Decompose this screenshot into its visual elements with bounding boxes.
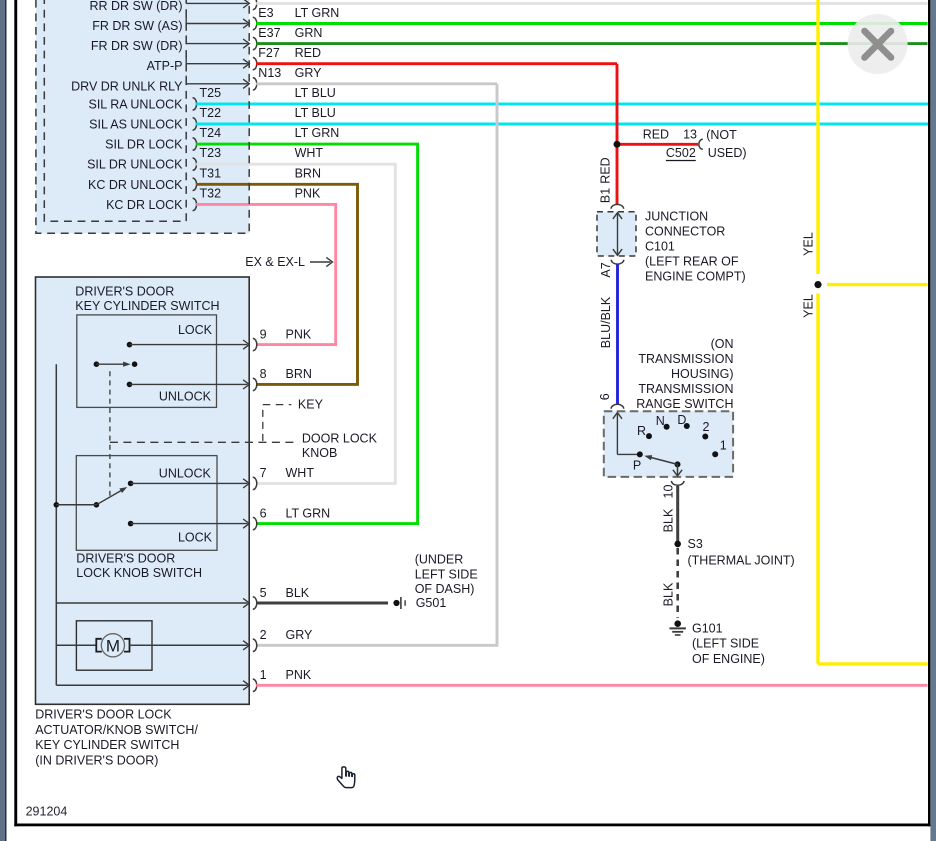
svg-text:KC DR UNLOCK: KC DR UNLOCK: [88, 178, 183, 192]
svg-text:10: 10: [661, 485, 675, 499]
svg-text:T25: T25: [200, 86, 222, 100]
svg-text:(THERMAL JOINT): (THERMAL JOINT): [688, 553, 795, 567]
svg-text:7: 7: [260, 466, 267, 480]
svg-text:(LEFT SIDE: (LEFT SIDE: [692, 637, 759, 651]
svg-text:6: 6: [260, 506, 267, 520]
svg-text:RED: RED: [599, 157, 613, 183]
svg-text:SIL DR LOCK: SIL DR LOCK: [105, 138, 183, 152]
svg-text:C502: C502: [666, 146, 696, 160]
svg-text:2: 2: [703, 420, 710, 434]
svg-text:LOCK: LOCK: [178, 323, 213, 337]
svg-text:BLU/BLK: BLU/BLK: [599, 296, 613, 348]
svg-text:S3: S3: [688, 537, 703, 551]
svg-text:DRV DR UNLK RLY: DRV DR UNLK RLY: [71, 79, 183, 93]
svg-text:B1: B1: [599, 188, 613, 203]
svg-text:GRY: GRY: [286, 628, 314, 642]
svg-text:ENGINE COMPT): ENGINE COMPT): [645, 270, 746, 284]
svg-text:BRN: BRN: [286, 367, 312, 381]
svg-text:E3: E3: [258, 6, 273, 20]
svg-text:DRIVER'S DOOR: DRIVER'S DOOR: [75, 285, 174, 299]
svg-text:D: D: [677, 413, 686, 427]
svg-text:YEL: YEL: [802, 294, 816, 318]
svg-text:FR DR SW (AS): FR DR SW (AS): [92, 19, 182, 33]
svg-text:EX & EX-L: EX & EX-L: [245, 255, 305, 269]
svg-text:G101: G101: [692, 622, 723, 636]
svg-text:ACTUATOR/KNOB SWITCH/: ACTUATOR/KNOB SWITCH/: [35, 723, 198, 737]
svg-text:BLK: BLK: [661, 508, 675, 532]
svg-text:F27: F27: [258, 46, 280, 60]
svg-text:TRANSMISSION: TRANSMISSION: [638, 382, 733, 396]
svg-text:WHT: WHT: [295, 146, 324, 160]
svg-text:T22: T22: [200, 106, 222, 120]
svg-text:GRN: GRN: [295, 26, 323, 40]
svg-text:USED): USED): [708, 146, 747, 160]
svg-text:TRANSMISSION: TRANSMISSION: [638, 352, 733, 366]
svg-text:FR DR SW (DR): FR DR SW (DR): [91, 39, 183, 53]
svg-text:N: N: [656, 414, 665, 428]
svg-text:LOCK KNOB SWITCH: LOCK KNOB SWITCH: [76, 566, 202, 580]
svg-text:PNK: PNK: [286, 327, 312, 341]
svg-text:1: 1: [720, 438, 727, 452]
svg-text:LT BLU: LT BLU: [295, 106, 336, 120]
svg-text:A7: A7: [599, 262, 613, 277]
svg-text:LT GRN: LT GRN: [286, 506, 331, 520]
svg-text:GRY: GRY: [295, 66, 323, 80]
svg-text:PNK: PNK: [295, 186, 321, 200]
svg-text:BLK: BLK: [286, 586, 310, 600]
svg-text:BLK: BLK: [661, 582, 675, 606]
svg-text:LT BLU: LT BLU: [295, 86, 336, 100]
svg-text:HOUSING): HOUSING): [671, 367, 734, 381]
svg-text:KEY: KEY: [298, 398, 324, 412]
svg-text:BRN: BRN: [295, 166, 321, 180]
svg-text:N13: N13: [258, 66, 281, 80]
svg-text:OF ENGINE): OF ENGINE): [692, 652, 765, 666]
svg-text:DRIVER'S DOOR: DRIVER'S DOOR: [76, 552, 175, 566]
svg-text:M: M: [106, 636, 120, 655]
svg-text:DOOR LOCK: DOOR LOCK: [302, 432, 378, 446]
svg-text:LOCK: LOCK: [178, 530, 213, 544]
svg-text:KNOB: KNOB: [302, 446, 337, 460]
svg-text:DRIVER'S DOOR LOCK: DRIVER'S DOOR LOCK: [35, 708, 172, 722]
svg-text:T23: T23: [200, 146, 222, 160]
svg-text:(LEFT REAR OF: (LEFT REAR OF: [645, 255, 739, 269]
svg-text:SIL RA UNLOCK: SIL RA UNLOCK: [88, 97, 183, 111]
svg-text:UNLOCK: UNLOCK: [159, 466, 212, 480]
svg-text:291204: 291204: [26, 805, 68, 819]
svg-text:ATP-P: ATP-P: [147, 59, 183, 73]
svg-text:OF DASH): OF DASH): [415, 582, 475, 596]
svg-text:KEY CYLINDER SWITCH: KEY CYLINDER SWITCH: [35, 738, 179, 752]
svg-text:G501: G501: [416, 596, 447, 610]
svg-text:LT GRN: LT GRN: [295, 126, 340, 140]
svg-text:(NOT: (NOT: [706, 128, 737, 142]
svg-text:8: 8: [260, 367, 267, 381]
svg-text:KEY CYLINDER SWITCH: KEY CYLINDER SWITCH: [75, 299, 219, 313]
svg-text:JUNCTION: JUNCTION: [645, 209, 708, 223]
svg-text:13: 13: [683, 128, 697, 142]
svg-text:RR DR SW (DR): RR DR SW (DR): [89, 0, 182, 13]
svg-text:RANGE SWITCH: RANGE SWITCH: [636, 397, 733, 411]
svg-text:WHT: WHT: [286, 466, 315, 480]
svg-text:C101: C101: [645, 240, 675, 254]
svg-text:SIL DR UNLOCK: SIL DR UNLOCK: [87, 158, 183, 172]
svg-text:LEFT SIDE: LEFT SIDE: [415, 568, 478, 582]
svg-text:T31: T31: [200, 166, 222, 180]
svg-text:LT GRN: LT GRN: [295, 6, 340, 20]
svg-text:R: R: [637, 424, 646, 438]
svg-text:UNLOCK: UNLOCK: [159, 389, 212, 403]
svg-text:6: 6: [598, 393, 612, 400]
svg-text:RED: RED: [295, 46, 321, 60]
svg-text:PNK: PNK: [286, 668, 312, 682]
svg-text:T32: T32: [200, 186, 222, 200]
svg-text:KC DR LOCK: KC DR LOCK: [106, 198, 183, 212]
svg-text:2: 2: [260, 628, 267, 642]
svg-text:YEL: YEL: [802, 232, 816, 256]
svg-text:1: 1: [260, 668, 267, 682]
svg-text:(ON: (ON: [711, 337, 734, 351]
svg-text:CONNECTOR: CONNECTOR: [645, 224, 725, 238]
svg-text:T24: T24: [200, 126, 222, 140]
svg-text:RED: RED: [643, 128, 669, 142]
svg-text:5: 5: [260, 586, 267, 600]
svg-text:SIL AS UNLOCK: SIL AS UNLOCK: [89, 118, 183, 132]
svg-text:P: P: [633, 458, 641, 472]
svg-text:(UNDER: (UNDER: [415, 552, 464, 566]
svg-text:9: 9: [260, 327, 267, 341]
svg-text:(IN DRIVER'S DOOR): (IN DRIVER'S DOOR): [35, 754, 158, 768]
svg-text:E37: E37: [258, 26, 280, 40]
